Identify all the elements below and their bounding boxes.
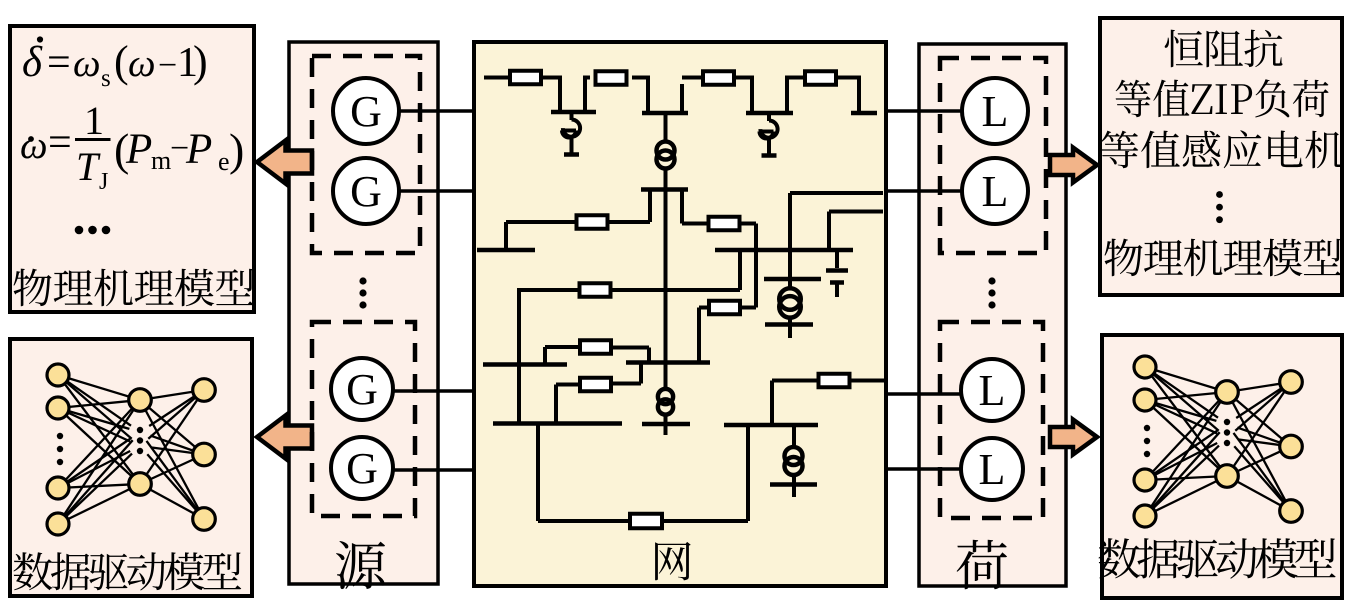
svg-text:=: =	[48, 120, 72, 166]
svg-text:G: G	[346, 365, 378, 414]
svg-text:): )	[229, 124, 244, 175]
svg-text:P: P	[125, 126, 152, 173]
svg-text:δ: δ	[22, 39, 43, 86]
svg-text:−: −	[158, 47, 177, 84]
svg-text:s: s	[101, 65, 111, 92]
svg-text:m: m	[151, 146, 171, 175]
svg-text:L: L	[982, 167, 1009, 216]
svg-text:L: L	[982, 87, 1009, 136]
svg-text:e: e	[218, 147, 230, 176]
svg-text:G: G	[346, 444, 378, 493]
svg-text:ω: ω	[73, 42, 101, 85]
svg-text:J: J	[99, 169, 108, 195]
svg-text:P: P	[185, 126, 212, 173]
svg-text:L: L	[979, 445, 1006, 494]
svg-text:(: (	[114, 37, 129, 86]
svg-text:=: =	[47, 40, 71, 86]
svg-text:ω: ω	[20, 124, 48, 167]
svg-text:): )	[193, 37, 208, 86]
svg-text:ω: ω	[128, 42, 156, 85]
svg-text:L: L	[979, 366, 1006, 415]
svg-text:G: G	[350, 87, 382, 136]
svg-text:T: T	[76, 144, 101, 189]
svg-text:G: G	[350, 167, 382, 216]
svg-text:1: 1	[84, 98, 104, 143]
